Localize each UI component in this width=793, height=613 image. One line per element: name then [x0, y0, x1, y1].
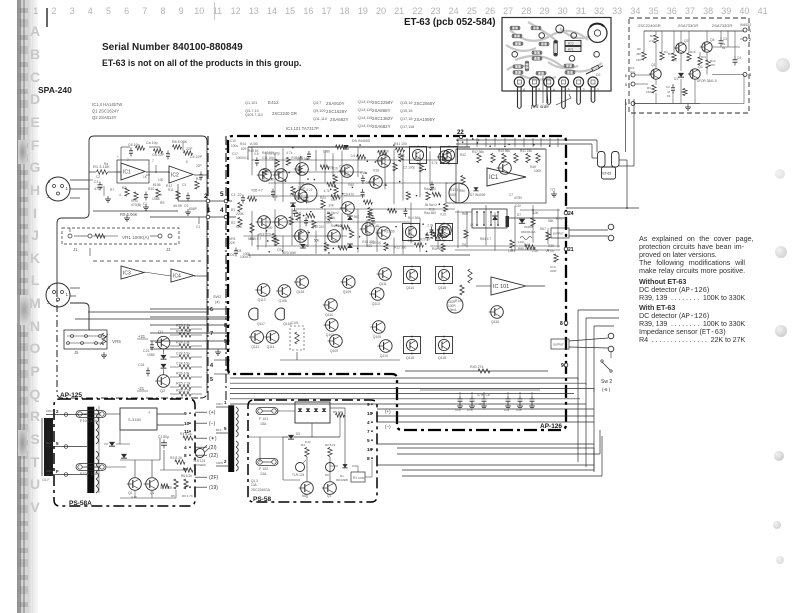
svg-text:Q1 2SC1624Y: Q1 2SC1624Y — [92, 108, 119, 113]
svg-text:0.22: 0.22 — [306, 188, 312, 192]
svg-text:TLR-124: TLR-124 — [292, 473, 305, 477]
svg-text:F102 13A: F102 13A — [80, 471, 98, 476]
svg-text:Sw 2: Sw 2 — [601, 379, 612, 385]
svg-text:4.7k: 4.7k — [286, 151, 292, 155]
svg-text:E412: E412 — [268, 100, 279, 105]
svg-text:(+): (+) — [385, 409, 391, 414]
svg-text:6: 6 — [210, 307, 213, 313]
svg-text:C4 22P: C4 22P — [190, 155, 203, 159]
svg-text:1988: 1988 — [152, 197, 160, 201]
svg-text:4: 4 — [119, 193, 121, 197]
svg-text:2SC2258Y: 2SC2258Y — [372, 100, 393, 105]
svg-text:C8 22P: C8 22P — [152, 153, 165, 157]
svg-text:R16: R16 — [360, 171, 366, 175]
svg-text:R1: R1 — [231, 208, 235, 212]
svg-text:4: 4 — [184, 445, 187, 451]
svg-text:R6 8.06K: R6 8.06K — [172, 140, 188, 144]
svg-text:C3: C3 — [182, 183, 186, 187]
svg-text:R10: R10 — [148, 187, 154, 191]
svg-text:(22): (22) — [209, 453, 218, 459]
svg-text:56K: 56K — [354, 215, 361, 219]
svg-text:0.22: 0.22 — [440, 213, 446, 217]
svg-text:6: 6 — [186, 160, 188, 164]
svg-text:C13: C13 — [455, 408, 461, 412]
svg-text:R3: R3 — [122, 186, 126, 190]
svg-text:(POWER): (POWER) — [193, 463, 206, 467]
svg-text:470/16W: 470/16W — [283, 251, 296, 255]
svg-text:R39: R39 — [548, 244, 554, 248]
svg-text:IC3: IC3 — [123, 270, 131, 276]
svg-text:C9: C9 — [184, 204, 188, 208]
svg-text:8: 8 — [560, 321, 563, 327]
svg-text:2SC2240GA: 2SC2240GA — [251, 488, 271, 492]
svg-text:4.7K: 4.7K — [131, 495, 137, 499]
svg-text:R140: R140 — [455, 299, 463, 303]
svg-text:R9: R9 — [668, 52, 672, 56]
svg-text:0.5: 0.5 — [366, 181, 371, 185]
svg-text:1988: 1988 — [397, 154, 404, 158]
svg-text:R7: R7 — [110, 188, 114, 192]
svg-text:SFOR 3841-5: SFOR 3841-5 — [697, 79, 717, 83]
svg-text:330p: 330p — [298, 186, 305, 190]
svg-text:R16: R16 — [373, 168, 379, 172]
svg-text:Q116: Q116 — [491, 320, 499, 324]
svg-text:8: 8 — [184, 453, 187, 459]
svg-text:7: 7 — [367, 429, 370, 435]
svg-text:Q1,101: Q1,101 — [245, 101, 257, 105]
svg-text:1: 1 — [207, 207, 211, 214]
svg-text:3: 3 — [160, 193, 162, 197]
svg-text:1: 1 — [66, 292, 69, 297]
svg-text:7: 7 — [152, 159, 154, 163]
svg-text:Q15,16: Q15,16 — [400, 109, 412, 113]
svg-text:24: 24 — [568, 211, 574, 217]
svg-text:0.5: 0.5 — [254, 152, 259, 156]
svg-text:2SC1382Y: 2SC1382Y — [372, 116, 393, 121]
svg-text:R20 1K: R20 1K — [379, 150, 391, 154]
svg-text:R47 56k: R47 56k — [472, 150, 484, 154]
svg-text:C4: C4 — [737, 56, 741, 60]
svg-text:470(B): 470(B) — [131, 203, 141, 207]
svg-text:5: 5 — [367, 438, 370, 444]
svg-text:C11: C11 — [504, 408, 510, 412]
svg-text:C31: C31 — [138, 363, 145, 367]
svg-text:2SC2240 GR: 2SC2240 GR — [272, 111, 297, 116]
svg-text:D6: D6 — [325, 473, 329, 477]
svg-text:RD22EB: RD22EB — [336, 478, 348, 482]
svg-text:R1: R1 — [353, 476, 357, 480]
svg-text:C1 80µ: C1 80µ — [158, 435, 169, 439]
svg-text:(2I): (2I) — [209, 445, 217, 451]
svg-text:(2F): (2F) — [209, 475, 219, 481]
svg-text:10K: 10K — [331, 198, 338, 202]
svg-text:R11: R11 — [701, 55, 707, 59]
svg-text:R6 8.2k: R6 8.2k — [181, 474, 192, 478]
svg-text:(−): (−) — [385, 424, 391, 429]
svg-text:10K: 10K — [328, 203, 335, 207]
svg-text:1000/6.3: 1000/6.3 — [236, 156, 249, 160]
svg-text:Q109: Q109 — [343, 290, 351, 294]
svg-text:R84/R410A: R84/R410A — [521, 230, 536, 234]
svg-text:D8: D8 — [462, 243, 466, 247]
svg-text:R60: R60 — [462, 212, 468, 216]
svg-text:100: 100 — [158, 178, 164, 182]
svg-text:777: 777 — [550, 188, 556, 192]
svg-text:56K: 56K — [326, 221, 333, 225]
svg-text:Q111: Q111 — [379, 282, 387, 286]
svg-text:7: 7 — [184, 485, 187, 491]
svg-text:3: 3 — [47, 300, 50, 305]
svg-text:+: + — [148, 410, 151, 415]
svg-text:BLK: BLK — [216, 428, 222, 432]
svg-text:-21: -21 — [138, 386, 145, 391]
svg-text:9: 9 — [184, 411, 187, 417]
svg-text:Q2 2SA814Y: Q2 2SA814Y — [92, 115, 117, 120]
svg-text:D7 IN4005: D7 IN4005 — [470, 193, 485, 197]
svg-text:C2 100p: C2 100p — [268, 152, 280, 156]
svg-text:2SA910Y: 2SA910Y — [326, 101, 345, 106]
svg-text:R2: R2 — [650, 34, 654, 38]
svg-text:1K: 1K — [143, 175, 148, 179]
svg-text:R64 4.7: R64 4.7 — [480, 237, 491, 241]
svg-text:R2 8.2k: R2 8.2k — [325, 443, 336, 447]
svg-text:R12 330: R12 330 — [262, 178, 274, 182]
svg-text:829: 829 — [241, 147, 247, 151]
svg-text:2: 2 — [583, 88, 585, 92]
svg-text:C10: C10 — [230, 139, 236, 143]
svg-text:2SA733GR: 2SA733GR — [712, 23, 732, 28]
svg-text:CRN: CRN — [46, 409, 53, 413]
svg-text:8106: 8106 — [153, 183, 161, 187]
svg-text:Q108: Q108 — [279, 299, 287, 303]
svg-text:D3: D3 — [296, 432, 300, 436]
svg-text:5: 5 — [538, 88, 540, 92]
svg-text:21K: 21K — [636, 58, 641, 62]
svg-text:R40: R40 — [348, 183, 354, 187]
svg-text:R17 1K: R17 1K — [369, 224, 381, 228]
svg-text:56K: 56K — [314, 238, 321, 242]
svg-text:(+): (+) — [209, 410, 216, 416]
svg-text:IC4: IC4 — [173, 273, 181, 279]
svg-text:C1: C1 — [94, 180, 99, 184]
svg-text:2: 2 — [127, 158, 129, 162]
svg-text:5: 5 — [224, 339, 227, 345]
svg-text:R35 4.7: R35 4.7 — [250, 237, 261, 241]
svg-text:2: 2 — [204, 193, 208, 200]
svg-text:Ra: Ra — [104, 162, 108, 166]
svg-text:+: + — [117, 155, 119, 159]
svg-text:R8 100K: R8 100K — [160, 486, 173, 490]
svg-text:3: 3 — [47, 194, 50, 199]
svg-text:Q11,110: Q11,110 — [313, 117, 327, 121]
svg-text:SW2: SW2 — [213, 295, 221, 299]
svg-text:R33 56: R33 56 — [325, 216, 336, 220]
svg-text:Q103-7,110: Q103-7,110 — [245, 113, 263, 117]
svg-text:1: 1 — [66, 186, 69, 191]
svg-text:4: 4 — [367, 420, 370, 426]
svg-text:5: 5 — [210, 377, 213, 383]
svg-text:AP-125: AP-125 — [60, 392, 82, 399]
svg-text:(19): (19) — [209, 485, 218, 491]
svg-text:2SA1095Y: 2SA1095Y — [414, 117, 435, 122]
svg-text:1: 1 — [224, 400, 227, 405]
svg-text:R6: R6 — [637, 47, 641, 51]
svg-text:L101: L101 — [518, 240, 525, 244]
svg-text:330p: 330p — [295, 195, 302, 199]
svg-text:R50: R50 — [459, 189, 465, 193]
svg-text:6: 6 — [625, 73, 628, 78]
svg-text:R41 100: R41 100 — [394, 142, 407, 146]
svg-text:IC1,4 HA1457W: IC1,4 HA1457W — [92, 102, 122, 107]
svg-text:1988: 1988 — [323, 150, 330, 154]
svg-text:AP-126: AP-126 — [540, 423, 562, 430]
svg-text:C15: C15 — [467, 408, 473, 412]
svg-text:R33 56: R33 56 — [384, 230, 395, 234]
svg-text:Q117: Q117 — [257, 322, 265, 326]
svg-text:1000: 1000 — [243, 252, 250, 256]
svg-text:8: 8 — [367, 456, 370, 462]
svg-text:10K: 10K — [380, 157, 387, 161]
svg-text:OUTPUT: OUTPUT — [553, 232, 564, 236]
svg-text:22K: 22K — [229, 241, 236, 245]
svg-text:470P: 470P — [94, 187, 103, 191]
svg-text:R44 560: R44 560 — [408, 216, 420, 220]
svg-text:CRN: CRN — [216, 402, 223, 406]
svg-text:R72: R72 — [568, 41, 574, 45]
svg-text:4: 4 — [553, 88, 555, 92]
svg-text:.5k.5w×2: .5k.5w×2 — [424, 203, 437, 207]
svg-text:Q2: Q2 — [684, 39, 689, 43]
svg-text:5: 5 — [56, 441, 59, 446]
svg-text:R18 220: R18 220 — [312, 225, 324, 229]
svg-text:VR5: VR5 — [112, 339, 121, 344]
svg-text:D2: D2 — [596, 73, 600, 77]
svg-text:6: 6 — [523, 88, 525, 92]
svg-text:IC2: IC2 — [171, 172, 179, 178]
svg-text:Q110: Q110 — [380, 354, 388, 358]
svg-text:R31: R31 — [414, 158, 420, 162]
svg-text:15A: 15A — [260, 422, 267, 426]
svg-text:47/50: 47/50 — [514, 196, 522, 200]
svg-text:5: 5 — [625, 82, 628, 87]
svg-text:63: 63 — [667, 94, 671, 98]
svg-text:10K: 10K — [533, 211, 540, 215]
svg-text:C7 10p: C7 10p — [339, 164, 350, 168]
svg-text:F 101: F 101 — [259, 417, 268, 421]
svg-text:R25 2.2k: R25 2.2k — [176, 382, 191, 386]
svg-text:PS-58: PS-58 — [253, 496, 271, 503]
svg-text:PS-58A: PS-58A — [69, 500, 92, 507]
svg-text:1988: 1988 — [445, 227, 452, 231]
svg-text:3: 3 — [749, 72, 752, 77]
svg-text:4: 4 — [210, 363, 214, 369]
svg-text:11: 11 — [184, 429, 189, 435]
svg-text:S-3180: S-3180 — [128, 417, 142, 422]
svg-text:Q118: Q118 — [438, 286, 446, 290]
svg-text:R5 136: R5 136 — [333, 410, 343, 414]
svg-text:10: 10 — [184, 421, 190, 427]
svg-text:R71: R71 — [568, 47, 574, 51]
svg-text:(a): (a) — [215, 300, 220, 304]
svg-text:C7: C7 — [509, 193, 513, 197]
svg-text:R2: R2 — [231, 221, 235, 225]
svg-text:2.2k: 2.2k — [649, 39, 655, 43]
svg-text:Q111: Q111 — [251, 345, 259, 349]
svg-text:Raa 660: Raa 660 — [424, 187, 436, 191]
svg-text:806P: 806P — [189, 207, 198, 211]
svg-text:2.2k: 2.2k — [427, 223, 433, 227]
svg-text:R20 1K: R20 1K — [370, 241, 382, 245]
svg-text:1: 1 — [597, 88, 599, 92]
svg-text:1: 1 — [749, 28, 752, 33]
svg-text:2: 2 — [749, 37, 752, 42]
svg-text:0.5: 0.5 — [366, 232, 371, 236]
svg-text:4.7k: 4.7k — [324, 189, 330, 193]
svg-text:R5: R5 — [171, 494, 175, 498]
svg-text:49K: 49K — [636, 52, 641, 56]
svg-text:R31: R31 — [344, 173, 350, 177]
svg-text:47K: 47K — [710, 63, 715, 67]
svg-text:R28 100: R28 100 — [291, 156, 303, 160]
svg-text:2: 2 — [56, 409, 59, 414]
svg-text:4.7k: 4.7k — [431, 161, 437, 165]
svg-text:100K: 100K — [534, 169, 542, 173]
svg-text:21: 21 — [568, 247, 574, 253]
svg-text:C7: C7 — [143, 202, 147, 206]
svg-text:2SC2565Y: 2SC2565Y — [414, 101, 435, 106]
svg-text:IC1,101 TA7317P: IC1,101 TA7317P — [286, 126, 319, 131]
svg-text:56k: 56k — [672, 58, 677, 62]
svg-text:C6 10p: C6 10p — [128, 143, 140, 147]
svg-text:Q14,114: Q14,114 — [358, 124, 372, 128]
svg-text:C8: C8 — [237, 249, 241, 253]
svg-text:R18 220: R18 220 — [259, 232, 271, 236]
svg-text:C1: C1 — [196, 225, 200, 229]
svg-text:M2: M2 — [302, 494, 307, 498]
svg-text:C4: C4 — [273, 195, 277, 199]
svg-text:C1 .22: C1 .22 — [231, 193, 242, 197]
svg-text:VR1 100K(A): VR1 100K(A) — [122, 235, 150, 240]
svg-text:R40: R40 — [267, 226, 273, 230]
svg-text:CRW: CRW — [216, 461, 223, 465]
svg-text:R24: R24 — [320, 196, 326, 200]
svg-text:10K: 10K — [302, 244, 309, 248]
svg-text:49.9K: 49.9K — [173, 204, 183, 208]
svg-text:3: 3 — [568, 88, 570, 92]
svg-text:JC1: JC1 — [630, 70, 635, 74]
svg-text:63: 63 — [722, 46, 726, 50]
svg-text:R101: R101 — [450, 188, 458, 192]
svg-text:R40 27k: R40 27k — [470, 365, 484, 369]
svg-text:R3 8.26: R3 8.26 — [170, 456, 182, 460]
svg-text:Q14,115: Q14,115 — [358, 116, 372, 120]
svg-text:IC1: IC1 — [489, 175, 499, 181]
svg-text:R67: R67 — [540, 227, 546, 231]
svg-text:2.2k: 2.2k — [408, 239, 414, 243]
svg-text:Q13,110: Q13,110 — [358, 108, 372, 112]
svg-text:OUTPUT: OUTPUT — [553, 343, 564, 347]
svg-text:C34 10p: C34 10p — [176, 362, 190, 366]
svg-text:C6: C6 — [230, 253, 234, 257]
svg-text:C9: C9 — [277, 248, 281, 252]
svg-text:Q2: Q2 — [160, 388, 166, 393]
svg-text:IN4005: IN4005 — [524, 225, 534, 229]
svg-text:Q4,7: Q4,7 — [313, 101, 321, 105]
svg-text:2SA682Y: 2SA682Y — [330, 117, 349, 122]
svg-text:IN4003: IN4003 — [740, 23, 751, 27]
svg-text:150: 150 — [646, 90, 651, 94]
svg-text:Q116: Q116 — [406, 356, 414, 360]
svg-text:R44 560: R44 560 — [331, 224, 343, 228]
svg-text:A 56: A 56 — [250, 142, 258, 146]
svg-text:Q13,114: Q13,114 — [358, 100, 372, 104]
svg-text:7: 7 — [210, 331, 213, 337]
svg-text:8: 8 — [224, 323, 227, 329]
svg-text:Q105: Q105 — [373, 335, 381, 339]
svg-text:C11 10p: C11 10p — [262, 156, 274, 160]
svg-text:IC 101: IC 101 — [493, 284, 509, 290]
svg-text:(−): (−) — [209, 421, 216, 427]
svg-text:R35 4.7: R35 4.7 — [251, 188, 262, 192]
svg-text:(-6 ): (-6 ) — [602, 387, 611, 392]
svg-text:R31: R31 — [332, 240, 338, 244]
svg-text:Q113: Q113 — [372, 302, 380, 306]
svg-text:R9 4.7K: R9 4.7K — [182, 494, 193, 498]
svg-text:R23 2.2k: R23 2.2k — [176, 324, 191, 328]
svg-text:27 (4): 27 (4) — [546, 249, 554, 253]
svg-text:10K: 10K — [277, 170, 284, 174]
svg-text:22P: 22P — [196, 164, 202, 168]
svg-text:C2: C2 — [666, 85, 670, 89]
svg-text:C2 100p: C2 100p — [403, 165, 415, 169]
svg-text:100K: 100K — [358, 476, 365, 480]
svg-text:1K: 1K — [470, 223, 475, 227]
svg-text:Q109: Q109 — [330, 349, 338, 353]
svg-text:ET-63: ET-63 — [603, 172, 612, 176]
svg-text:R12 330: R12 330 — [394, 246, 406, 250]
svg-text:9: 9 — [561, 363, 564, 369]
svg-text:100u: 100u — [231, 144, 238, 148]
svg-text:Q3: Q3 — [698, 65, 703, 69]
svg-text:R9 6.06K: R9 6.06K — [120, 212, 138, 217]
svg-text:R41 15k: R41 15k — [520, 149, 532, 153]
svg-text:J1: J1 — [73, 247, 78, 252]
svg-text:F 102: F 102 — [259, 467, 268, 471]
svg-text:R11: R11 — [168, 188, 174, 192]
svg-text:22P: 22P — [186, 147, 193, 151]
svg-text:.5k.5w×2: .5k.5w×2 — [326, 211, 339, 215]
svg-text:4: 4 — [220, 207, 224, 214]
svg-text:R20 1K: R20 1K — [420, 238, 432, 242]
svg-text:Q114: Q114 — [406, 286, 414, 290]
svg-text:C3: C3 — [723, 37, 727, 41]
svg-text:R26 10k: R26 10k — [176, 372, 190, 376]
svg-text:4: 4 — [625, 101, 628, 106]
svg-text:R43 56k: R43 56k — [498, 149, 510, 153]
svg-text:Q1: Q1 — [327, 494, 331, 498]
svg-text:13mA: 13mA — [448, 308, 457, 312]
svg-text:Q1: Q1 — [651, 63, 656, 67]
svg-text:+21: +21 — [138, 334, 146, 339]
svg-text:2SC2240GR: 2SC2240GR — [638, 23, 661, 28]
svg-text:600: 600 — [450, 193, 456, 197]
svg-text:56K: 56K — [548, 219, 555, 223]
svg-text:5: 5 — [184, 467, 187, 473]
svg-text:BLK: BLK — [46, 441, 52, 445]
svg-text:Q9,109: Q9,109 — [313, 109, 325, 113]
svg-text:0.5: 0.5 — [351, 154, 356, 158]
svg-text:R26 2.2k: R26 2.2k — [176, 389, 191, 393]
